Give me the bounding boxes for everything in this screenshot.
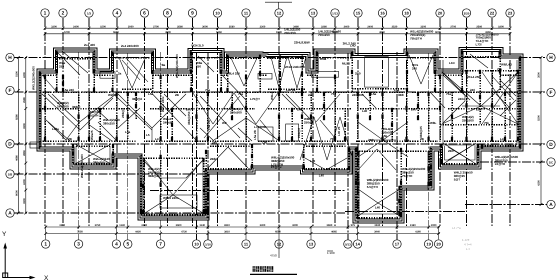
interior wall x116.7 <box>116 92 118 141</box>
left dimension line 2 <box>25 58 27 214</box>
horizontal gridline axis A right span <box>465 204 547 206</box>
shear wall fills <box>55 51 57 55</box>
axis bubble 19 (bottom) <box>424 240 432 248</box>
svg-text:W8: W8 <box>222 121 227 125</box>
left dimension line 1 <box>17 58 19 214</box>
bottom dimension line 2 <box>46 233 440 235</box>
axis bubble 13 (bottom) <box>307 240 315 248</box>
bay T3 top wall <box>191 57 221 59</box>
interior wall x356 <box>355 148 357 217</box>
horizontal sub-gridline 1/A <box>150 190 345 192</box>
svg-text:2700: 2700 <box>153 25 159 28</box>
axis bubble A (right) <box>547 200 555 208</box>
interior wall x370 <box>369 92 371 120</box>
axis bubble 1/C (right) <box>547 158 555 166</box>
interior wall x94 <box>93 51 95 92</box>
XY axis symbol <box>3 248 31 278</box>
interior wall x172 <box>171 108 173 141</box>
svg-text:2B0: 2B0 <box>368 138 374 142</box>
title text (CJK glyph blobs) <box>253 266 256 272</box>
svg-text:240x500: 240x500 <box>57 104 69 108</box>
svg-text:4160: 4160 <box>415 231 421 234</box>
svg-text:2580: 2580 <box>177 25 183 28</box>
svg-text:2KL4 250: 2KL4 250 <box>467 75 481 79</box>
wall row D a <box>40 140 136 142</box>
svg-text:240: 240 <box>412 66 417 70</box>
axis bubble 16 (top) <box>378 9 386 17</box>
svg-text:1140: 1140 <box>119 224 125 227</box>
svg-text:5T@TH: 5T@TH <box>271 166 281 170</box>
svg-text:W2a25: W2a25 <box>90 130 94 140</box>
bay B2 bottom wall <box>141 214 206 216</box>
svg-text:1: 1 <box>44 11 47 17</box>
svg-text:W6/L4D: W6/L4D <box>501 63 513 67</box>
inner outline bay B6 <box>445 146 476 160</box>
vertical gridline axis 10 (bottom set) <box>196 52 198 239</box>
horizontal gridline axis F <box>14 91 546 93</box>
svg-text:L5a: L5a <box>148 92 154 96</box>
svg-text:Y: Y <box>2 231 7 238</box>
horizontal gridline axis H <box>14 57 546 59</box>
interior wall x232 <box>231 92 233 120</box>
top band wall seg e <box>260 74 267 76</box>
svg-text:22: 22 <box>490 11 495 16</box>
svg-text:16: 16 <box>380 11 385 16</box>
axis bubble 1/10 (bottom) <box>204 240 212 248</box>
interior wall x324 <box>323 92 325 120</box>
interior wall x143.5 <box>143 158 145 214</box>
svg-text:75k@TH: 75k@TH <box>410 36 422 40</box>
svg-text:8: 8 <box>166 11 169 17</box>
interior wall x345 <box>344 108 346 141</box>
courtyard rect <box>365 57 389 87</box>
bay T6 top wall <box>317 57 352 59</box>
svg-text:F: F <box>9 88 12 94</box>
vertical gridline axis 1/10 (bottom set) <box>207 52 209 239</box>
vertical gridline axis 9 <box>192 18 194 226</box>
svg-text:975: 975 <box>351 224 356 227</box>
svg-text:3300: 3300 <box>23 198 26 204</box>
svg-text:2B0: 2B0 <box>448 149 454 153</box>
svg-text:L40a: L40a <box>52 127 59 131</box>
svg-text:240x: 240x <box>458 97 465 101</box>
top dimension line 1 <box>45 27 510 29</box>
svg-text:250x500: 250x500 <box>462 118 474 122</box>
svg-text:L75@TH: L75@TH <box>254 125 266 129</box>
axis bubble 22 (top) <box>488 9 496 17</box>
svg-text:W24 2L0: W24 2L0 <box>191 44 204 48</box>
interior wall x206 <box>205 150 207 214</box>
interior wall x349 <box>348 148 350 170</box>
svg-text:L73!: L73! <box>476 43 482 47</box>
svg-text:75a: 75a <box>331 92 336 96</box>
interior wall x302 <box>301 92 303 141</box>
bay T2 top wall <box>113 57 153 59</box>
svg-text:5350: 5350 <box>216 31 222 34</box>
axis bubble 17 (bottom) <box>393 240 401 248</box>
interior wall x317 <box>316 52 318 92</box>
axis bubble 20 (bottom) <box>434 240 442 248</box>
bottom dimension line 1 <box>46 226 440 228</box>
svg-text:6700: 6700 <box>276 31 282 34</box>
title underline 2 <box>327 250 333 252</box>
svg-text:20: 20 <box>436 242 441 247</box>
vertical gridline axis 15 <box>357 18 359 226</box>
interior wall x418 <box>417 92 419 120</box>
svg-text:2850: 2850 <box>23 150 26 156</box>
axis bubble F (left) <box>6 86 14 94</box>
gridline stub axis 12 bottom <box>278 226 280 239</box>
svg-text:700x250: 700x250 <box>284 31 296 35</box>
svg-text:75k: 75k <box>484 121 489 125</box>
svg-text:3160: 3160 <box>410 224 416 227</box>
gridline stub axis 1 bottom <box>45 226 47 239</box>
interior wall x382.5 <box>382 92 384 141</box>
interior wall x280 <box>279 56 281 93</box>
interior wall x401 <box>400 148 402 217</box>
svg-text:1140: 1140 <box>199 224 205 227</box>
svg-text:H: H <box>549 55 553 61</box>
svg-text:3300: 3300 <box>260 25 266 28</box>
interior wall x191 <box>190 52 192 93</box>
svg-text:18: 18 <box>404 11 409 16</box>
svg-text:240: 240 <box>212 140 217 144</box>
svg-text:75a: 75a <box>205 88 210 92</box>
interior wall x335 <box>334 75 336 141</box>
gridline stub axis 4 bottom <box>115 226 117 239</box>
svg-text:L40: L40 <box>362 109 368 113</box>
axis bubble H (left) <box>6 53 14 61</box>
svg-text:23: 23 <box>508 11 513 16</box>
bay B2 top inner wall <box>143 157 203 159</box>
svg-text:3940: 3940 <box>374 224 380 227</box>
right tower mid wall <box>440 124 518 126</box>
building outer wall (double line) <box>40 51 520 221</box>
svg-text:1500: 1500 <box>100 25 106 28</box>
gable T5 base wall <box>268 88 306 90</box>
vertical gridline axis 17 (bottom set) <box>396 52 398 239</box>
interior wall x303.5 <box>303 144 305 168</box>
svg-text:7.5k: 7.5k <box>381 134 387 138</box>
vertical gridline axis 8 <box>167 18 169 226</box>
svg-text:2400: 2400 <box>367 25 373 28</box>
svg-text:L5@TH: L5@TH <box>495 162 505 166</box>
vertical gridline axis 7 (bottom set) <box>160 52 162 239</box>
axis bubble 18 (top) <box>402 9 410 17</box>
svg-text:X: X <box>44 275 49 280</box>
interior wall x428.5 <box>428 151 430 186</box>
svg-text:L =: L = <box>466 247 470 251</box>
vertical gridline axis 20 <box>439 18 441 226</box>
wall row 108 d <box>360 108 438 110</box>
svg-text:3600: 3600 <box>176 224 182 227</box>
axis bubble 8 (top) <box>163 9 171 17</box>
svg-text:2400: 2400 <box>23 179 26 185</box>
interior wall x127.8 <box>127 92 129 141</box>
interior wall x352 <box>351 52 353 92</box>
interior wall x452 <box>451 92 453 141</box>
interior wall x392 <box>391 108 393 141</box>
axis bubble 6 (top) <box>140 9 148 17</box>
vertical gridline axis 4 <box>116 18 118 226</box>
svg-text:75@TH: 75@TH <box>402 174 412 178</box>
inner outline bay B2 <box>144 158 203 214</box>
svg-text:1/13: 1/13 <box>332 12 338 16</box>
svg-text:10: 10 <box>194 242 199 247</box>
interior wall x478 <box>477 144 479 163</box>
interior wall x302 <box>301 56 303 93</box>
interior wall x246 <box>245 75 247 141</box>
svg-text:L4: L4 <box>155 137 159 141</box>
svg-text:3750: 3750 <box>95 224 101 227</box>
svg-text:W2L2 240x: W2L2 240x <box>161 96 165 112</box>
vertical gridline axis 16 <box>382 18 384 226</box>
svg-text:4250: 4250 <box>538 180 541 186</box>
inner outline bay B5 <box>359 151 428 214</box>
svg-text:D: D <box>549 142 553 148</box>
interior wall x141 <box>140 155 142 214</box>
wall row D e <box>444 140 518 142</box>
top band wall seg c <box>153 74 192 76</box>
svg-text:2B8: 2B8 <box>210 157 216 161</box>
svg-text:4: 4 <box>115 242 118 248</box>
svg-text:2a: 2a <box>118 72 122 76</box>
svg-text:2400: 2400 <box>344 25 350 28</box>
svg-text:380x250: 380x250 <box>93 160 105 164</box>
overall dimension below axis 12 <box>278 239 280 258</box>
svg-text:1000: 1000 <box>431 224 437 227</box>
svg-text:2L4 240x300: 2L4 240x300 <box>121 44 139 48</box>
gable T2 base wall <box>122 88 153 90</box>
svg-text:2400: 2400 <box>73 25 79 28</box>
svg-text:3B8@25: 3B8@25 <box>419 126 423 138</box>
interior wall x136 <box>135 92 137 120</box>
interior wall x152.5 <box>152 52 154 92</box>
wall row 108 c <box>268 108 352 110</box>
svg-text:L5a: L5a <box>125 130 131 134</box>
svg-text:1:100: 1:100 <box>327 251 335 255</box>
svg-text:3KL2 240: 3KL2 240 <box>343 42 357 46</box>
bay T5 top wall <box>267 57 307 59</box>
svg-text:6500: 6500 <box>275 231 281 234</box>
svg-text:L75@T: L75@T <box>250 97 260 101</box>
axis bubble 1/B (left) <box>6 170 14 178</box>
svg-text:3810: 3810 <box>224 231 230 234</box>
svg-text:5: 5 <box>126 242 129 248</box>
svg-text:2700: 2700 <box>450 25 456 28</box>
top band wall seg h <box>500 74 520 76</box>
svg-text:15: 15 <box>356 11 361 16</box>
svg-text:L40: L40 <box>297 108 303 112</box>
axis bubble 11 (top) <box>242 9 250 17</box>
axis bubble 20 (top) <box>436 9 444 17</box>
svg-text:250x500: 250x500 <box>230 110 242 114</box>
svg-text:WKL6(2)240x500: WKL6(2)240x500 <box>175 54 179 78</box>
svg-text:13: 13 <box>309 242 314 247</box>
vertical gridline axis 18 <box>406 18 408 226</box>
vertical gridline axis 1 <box>44 18 46 226</box>
right tower bottom wall <box>482 145 516 147</box>
svg-text:W8L: W8L <box>430 121 437 125</box>
vertical gridline axis 10 <box>217 18 219 226</box>
interior wall x78.6 <box>78 92 80 141</box>
vertical gridline axis 1/3 <box>88 18 90 226</box>
svg-text:6: 6 <box>143 11 146 17</box>
svg-text:8280: 8280 <box>16 114 19 120</box>
svg-text:1800: 1800 <box>498 25 504 28</box>
axis bubble 4 (bottom) <box>112 240 120 248</box>
svg-text:2400: 2400 <box>23 72 26 78</box>
svg-text:L5@TH: L5@TH <box>88 113 98 117</box>
svg-text:240x500: 240x500 <box>352 93 364 97</box>
svg-text:3500: 3500 <box>538 72 541 78</box>
svg-text:2B8@2: 2B8@2 <box>121 108 125 118</box>
interior wall x260 <box>259 55 261 92</box>
vertical gridline axis 19 (bottom set) <box>428 52 430 239</box>
svg-text:L40: L40 <box>375 206 381 210</box>
interior wall x279 <box>278 92 280 141</box>
horizontal gridline axis 1/C (right) <box>480 161 547 163</box>
interior wall x358.5 <box>358 151 360 216</box>
svg-text:75a: 75a <box>446 92 451 96</box>
svg-text:1 J7#: 1 J7# <box>462 238 470 242</box>
interior wall x196.5 <box>196 92 198 141</box>
svg-text:2B8@2: 2B8@2 <box>297 128 301 138</box>
svg-text:4: 4 <box>116 11 119 17</box>
svg-text:1/B: 1/B <box>8 173 13 177</box>
axis bubble 3 (bottom) <box>74 240 82 248</box>
wall F d <box>315 91 405 93</box>
svg-text:5/13: 5/13 <box>345 243 351 247</box>
interior wall x292 <box>291 108 293 141</box>
vertical gridline axis 13 <box>312 18 314 226</box>
interior wall x227.5 <box>227 55 229 92</box>
axis bubble 12 (top) <box>275 9 283 17</box>
svg-text:3000: 3000 <box>128 25 134 28</box>
vertical gridline axis 2 <box>62 18 64 226</box>
svg-text:WKL2(2)240x500: WKL2(2)240x500 <box>32 66 36 90</box>
svg-text:3: 3 <box>77 242 80 248</box>
interior wall x428.6 <box>428 92 430 141</box>
left edge notch <box>30 142 40 148</box>
interior wall x399.5 <box>399 186 401 216</box>
svg-text:F: F <box>550 90 553 96</box>
vertical gridline axis 2/20 <box>466 18 468 226</box>
svg-text:1: 1 <box>44 242 47 248</box>
bay B6 bottom wall <box>441 163 478 165</box>
svg-text:WKL2(2)240x400: WKL2(2)240x400 <box>80 154 84 178</box>
interior wall x221 <box>220 52 222 93</box>
svg-text:A: A <box>549 202 553 208</box>
interior wall x311 <box>310 92 312 141</box>
bay T7 top wall <box>407 57 435 59</box>
axis bubble 2/20 (top) <box>462 9 470 17</box>
svg-text:L5: L5 <box>146 133 150 137</box>
gridline stub axis 11 bottom <box>245 226 247 239</box>
svg-text:W2L: W2L <box>108 93 115 97</box>
bay B4 inner wall <box>306 145 346 147</box>
wall row D d <box>356 140 438 142</box>
svg-text:14: 14 <box>355 242 360 247</box>
vertical gridline axis 11 <box>245 18 247 226</box>
right dimension line <box>540 58 542 205</box>
axis bubble 10 (top) <box>213 9 221 17</box>
svg-text:3300: 3300 <box>23 123 26 129</box>
svg-text:5100: 5100 <box>16 71 19 77</box>
svg-text:ML5D: ML5D <box>342 62 351 66</box>
axis bubble D (left) <box>6 140 14 148</box>
svg-text:12: 12 <box>277 11 282 16</box>
svg-text:2: 2 <box>62 11 65 17</box>
axis bubble 1/3 (top) <box>85 9 93 17</box>
canopy rect left <box>100 72 115 78</box>
interior wall x500 <box>499 51 501 93</box>
svg-text:2280: 2280 <box>321 25 327 28</box>
axis bubble 14 (bottom) <box>353 240 361 248</box>
interior wall x407 <box>406 52 408 92</box>
axis bubble 10 (bottom) <box>192 240 200 248</box>
svg-text:L5a 2B: L5a 2B <box>253 129 257 140</box>
bay T8 top wall <box>462 56 500 58</box>
svg-text:3940: 3940 <box>374 231 380 234</box>
svg-text:75k: 75k <box>497 67 502 71</box>
svg-text:2a0: 2a0 <box>308 93 313 97</box>
svg-text:3300: 3300 <box>59 224 65 227</box>
gridline stub axis 20 bottom <box>438 226 440 239</box>
svg-text:W8L4: W8L4 <box>270 92 274 100</box>
svg-text:700x250: 700x250 <box>318 33 330 37</box>
interior wall x56.5 <box>56 51 58 92</box>
vertical gridline axis 12 <box>278 18 280 226</box>
overall dimension T-bar above axis 12 <box>265 1 292 3</box>
svg-text:250: 250 <box>196 64 201 68</box>
svg-text:4680: 4680 <box>16 155 19 161</box>
roof slope lines <box>48 94 79 123</box>
svg-text:4730: 4730 <box>181 231 187 234</box>
interior wall x435 <box>434 52 436 92</box>
interior wall x441.5 <box>441 144 443 163</box>
svg-text:3B8@25: 3B8@25 <box>148 174 160 178</box>
svg-text:240: 240 <box>186 108 191 112</box>
svg-text:L5a: L5a <box>476 108 482 112</box>
interior wall x73 <box>72 144 74 163</box>
interior wall x252 <box>251 144 253 168</box>
svg-text:W8L2 240x: W8L2 240x <box>163 196 179 200</box>
wall F a <box>40 91 110 93</box>
svg-text:3280: 3280 <box>141 224 147 227</box>
top band wall seg g <box>435 74 462 76</box>
svg-text:2580: 2580 <box>229 25 235 28</box>
corridor base wall <box>352 88 407 90</box>
svg-text:2580: 2580 <box>476 25 482 28</box>
interior wall x112.5 <box>112 52 114 92</box>
interior wall x100 <box>99 108 101 141</box>
svg-text:L40: L40 <box>262 140 268 144</box>
axis bubble 1/13 (top) <box>331 9 339 17</box>
bay B3 inner wall <box>210 145 250 147</box>
top band wall seg f <box>307 74 317 76</box>
bay T4 top wall <box>228 57 261 59</box>
interior wall x63 <box>62 75 64 92</box>
svg-text:5550: 5550 <box>113 31 119 34</box>
top band wall seg b <box>94 74 113 76</box>
axis bubble 1 (bottom) <box>42 240 50 248</box>
svg-text:13: 13 <box>311 11 316 16</box>
interior wall x160.6 <box>160 155 162 214</box>
svg-text:240x5: 240x5 <box>163 120 172 124</box>
svg-text:250: 250 <box>59 64 64 68</box>
interior wall x482 <box>481 144 483 148</box>
